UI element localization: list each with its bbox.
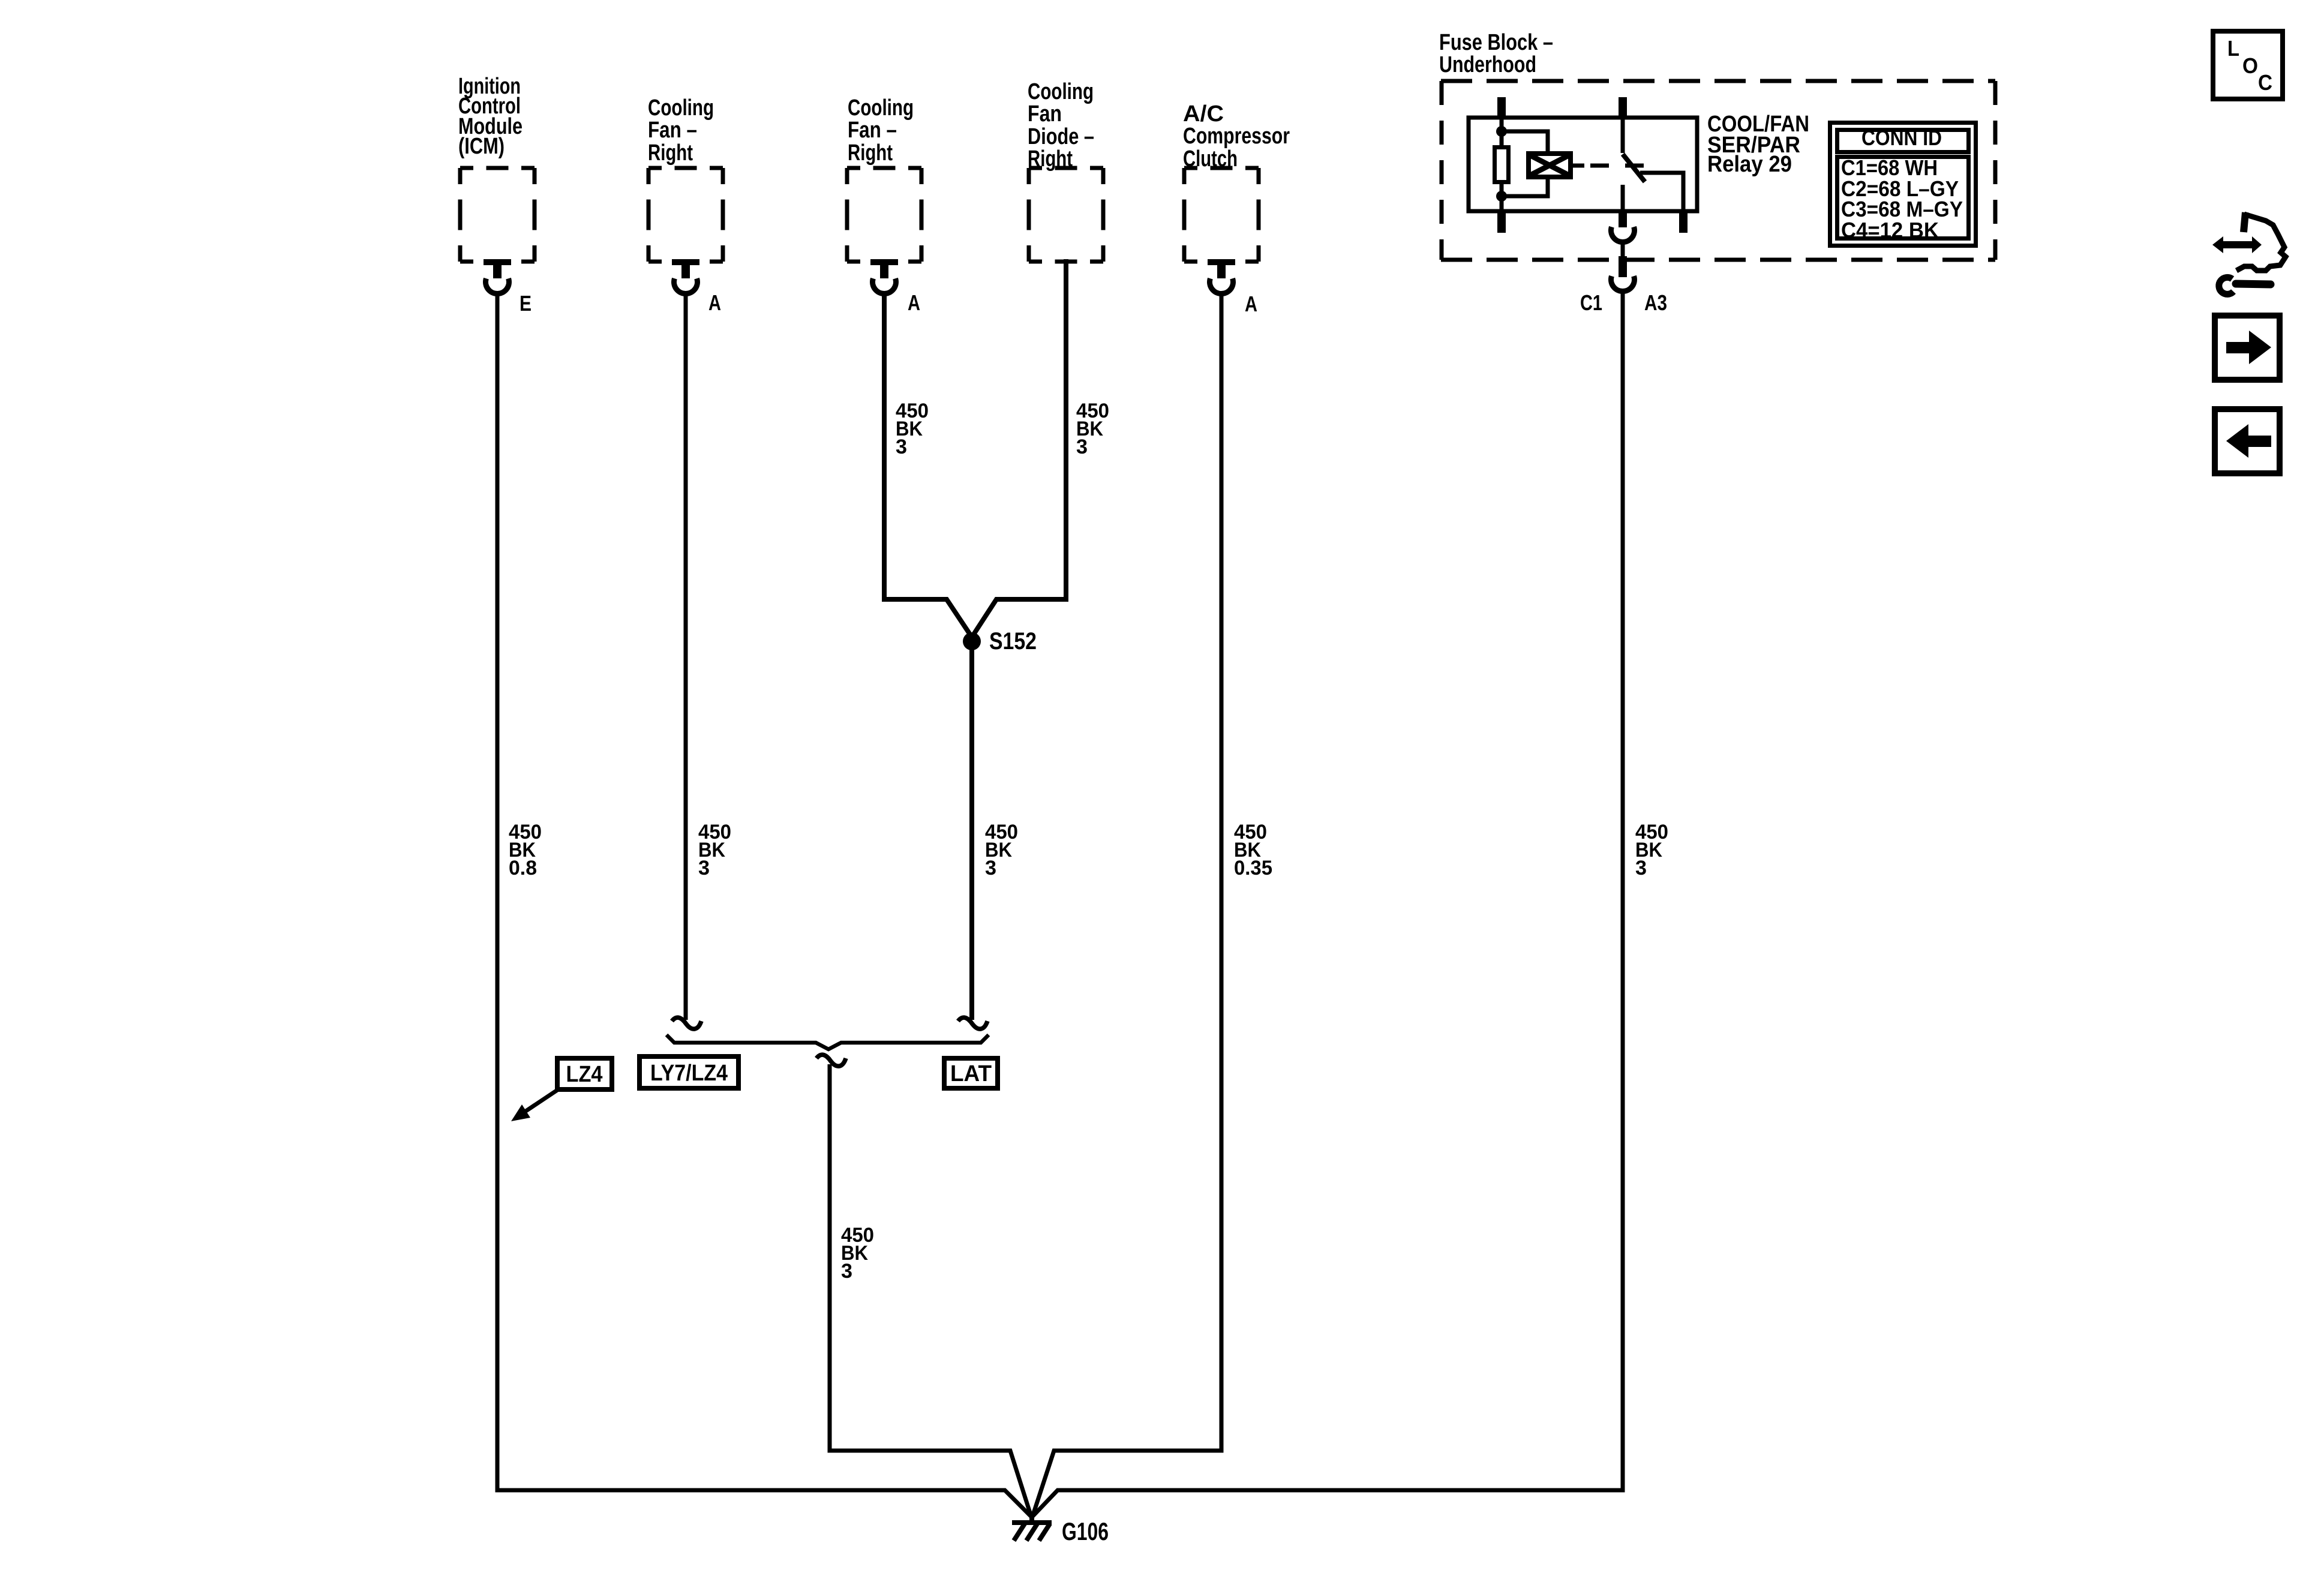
junction dot lower: [1496, 191, 1507, 202]
engine code box LAT: [944, 1058, 998, 1088]
svg-text:Relay 29: Relay 29: [1707, 152, 1792, 177]
svg-text:L: L: [2227, 36, 2239, 61]
splice node S152: [963, 632, 981, 650]
relay coil (bowtie): [1529, 154, 1571, 177]
svg-text:S152: S152: [989, 628, 1037, 655]
junction dot upper: [1496, 126, 1507, 137]
relay coil feed line: [1500, 118, 1504, 211]
pin stub Cooling Fan Right (right): [870, 259, 898, 278]
svg-text:LY7/LZ4: LY7/LZ4: [650, 1061, 728, 1086]
fuse block dashed border: [1441, 81, 1995, 260]
svg-text:3: 3: [698, 857, 710, 879]
wire label 450 BK 3 (fuse): [1635, 821, 1668, 879]
svg-text:Underhood: Underhood: [1439, 52, 1536, 77]
wire label 450 BK 3 (upper right): [1076, 400, 1109, 458]
wire brace to G106 (450 BK 3): [830, 1064, 1031, 1517]
wire label 450 BK 0.8: [509, 821, 542, 879]
relay label COOL/FAN SER/PAR Relay 29: [1707, 112, 1809, 177]
wire label 450 BK 3 (lower middle): [841, 1224, 874, 1283]
label Cooling Fan Diode - Right: [1028, 79, 1094, 172]
wire Cooling Fan Right to splice S152 (450 BK 3): [884, 293, 972, 637]
wire A/C Compressor Clutch to G106 (450 BK 0.35): [1032, 293, 1221, 1517]
svg-text:C4=12 BK: C4=12 BK: [1841, 218, 1939, 242]
svg-text:A: A: [708, 290, 721, 315]
connector cup ICM pin E: [486, 278, 509, 293]
svg-text:3: 3: [1635, 857, 1647, 879]
svg-text:Diode –: Diode –: [1028, 124, 1094, 149]
svg-text:LAT: LAT: [950, 1061, 992, 1086]
wire start squiggle (below brace): [816, 1055, 846, 1066]
svg-text:(ICM): (ICM): [458, 134, 505, 159]
connector cup C1/A3: [1611, 276, 1635, 291]
connector Cooling Fan Right dashed box (left): [648, 168, 723, 262]
label Ignition Control Module (ICM): [458, 74, 523, 159]
connector Cooling Fan Right dashed box (right): [847, 168, 921, 262]
wire label 450 BK 0.35: [1234, 821, 1272, 879]
label Cooling Fan - Right (right): [848, 95, 914, 166]
svg-text:CONN ID: CONN ID: [1861, 125, 1942, 150]
wire fuse block C1 to G106 (450 BK 3): [1032, 291, 1623, 1517]
connector cup Cooling Fan Right pin A (left): [674, 278, 698, 293]
svg-text:E: E: [520, 291, 532, 316]
ground symbol G106: [1012, 1515, 1052, 1541]
svg-text:G106: G106: [1062, 1517, 1109, 1545]
svg-text:Compressor: Compressor: [1183, 124, 1290, 149]
actuation dashed link: [1590, 164, 1644, 168]
connector A/C Compressor Clutch dashed box: [1184, 168, 1259, 262]
svg-text:Cooling: Cooling: [848, 95, 914, 121]
svg-text:3: 3: [841, 1260, 852, 1283]
svg-text:O: O: [2242, 53, 2258, 78]
resistor inside relay: [1495, 148, 1509, 182]
forward arrow icon box: [2215, 316, 2280, 380]
relay pin stub bottom center (30): [1619, 211, 1627, 227]
option brace grouping LY7/LZ4 wires: [666, 1035, 989, 1049]
connector cup Cooling Fan Right pin A (right): [873, 278, 896, 293]
svg-text:C: C: [2258, 70, 2272, 95]
fuse block edge crossing stub: [1619, 256, 1627, 277]
svg-text:Right: Right: [648, 140, 693, 166]
svg-text:Fuse Block –: Fuse Block –: [1439, 30, 1553, 55]
svg-text:Cooling: Cooling: [1028, 79, 1094, 104]
switch NO contact wire: [1640, 173, 1683, 211]
label Fuse Block - Underhood: [1439, 30, 1553, 77]
svg-text:3: 3: [1076, 436, 1088, 458]
svg-text:A/C: A/C: [1183, 101, 1224, 127]
label A/C Compressor Clutch: [1183, 101, 1290, 172]
pin stub A/C Compressor Clutch: [1208, 259, 1235, 278]
engine code box LZ4: [557, 1058, 612, 1089]
wire label 450 BK 3 (upper left): [896, 400, 929, 458]
wire label 450 BK 3 (left fan): [698, 821, 731, 879]
LOC icon box: [2213, 31, 2283, 99]
svg-text:0.8: 0.8: [509, 857, 537, 879]
relay pin stub top left (86): [1497, 97, 1506, 119]
wire S152 down to brace (450 BK 3): [969, 641, 974, 1020]
svg-text:A: A: [908, 290, 920, 315]
pin stub ICM: [484, 259, 511, 278]
wire end squiggle (left fan): [672, 1017, 701, 1029]
svg-text:0.35: 0.35: [1234, 857, 1272, 879]
relay pin stub bottom left (85): [1497, 211, 1506, 233]
switch output line: [1621, 185, 1625, 211]
svg-text:3: 3: [985, 857, 996, 879]
svg-text:Fan –: Fan –: [848, 118, 897, 143]
coil to switch stub: [1571, 164, 1584, 168]
switch common line: [1621, 118, 1625, 153]
switch blade: [1623, 154, 1645, 182]
engine code box LY7/LZ4: [639, 1056, 738, 1088]
svg-text:C1: C1: [1580, 290, 1602, 315]
wire Cooling Fan Right to LY7/LZ4 splice (450 BK 3): [684, 293, 688, 1020]
connector Cooling Fan Diode dashed box: [1029, 168, 1103, 262]
back arrow icon box: [2215, 409, 2280, 473]
coil branch wire: [1502, 131, 1548, 154]
svg-text:LZ4: LZ4: [566, 1062, 603, 1087]
svg-text:A3: A3: [1644, 290, 1667, 315]
svg-text:A: A: [1245, 292, 1257, 316]
label Cooling Fan - Right (left): [648, 95, 714, 166]
connector ICM dashed box: [460, 168, 535, 262]
connector cup relay pin: [1611, 227, 1635, 242]
vehicle repair icon (car outline, double arrow, wrench): [2212, 212, 2286, 294]
wire end squiggle (S152 branch): [958, 1017, 987, 1029]
svg-text:Fan: Fan: [1028, 101, 1062, 127]
connector cup A/C pin A: [1210, 278, 1233, 293]
svg-text:Fan –: Fan –: [648, 118, 697, 143]
relay pin stub bottom right (87): [1679, 211, 1688, 233]
svg-text:Cooling: Cooling: [648, 95, 714, 121]
relay pin stub top right (30): [1619, 97, 1627, 119]
arrow from LZ4 box: [511, 1090, 557, 1121]
wire label 450 BK 3 (below S152): [985, 821, 1018, 879]
pin stub Cooling Fan Right (left): [672, 259, 699, 278]
wire Cooling Fan Diode to splice S152 (450 BK 3): [972, 259, 1066, 637]
wire ICM E to G106 (450 BK 0.8): [497, 293, 1032, 1517]
relay box COOL/FAN SER/PAR Relay 29: [1469, 118, 1697, 211]
svg-text:Right: Right: [848, 140, 893, 166]
wire relay pin to fuse block edge: [1621, 242, 1625, 256]
svg-text:3: 3: [896, 436, 907, 458]
CONN ID table: [1830, 123, 1976, 246]
